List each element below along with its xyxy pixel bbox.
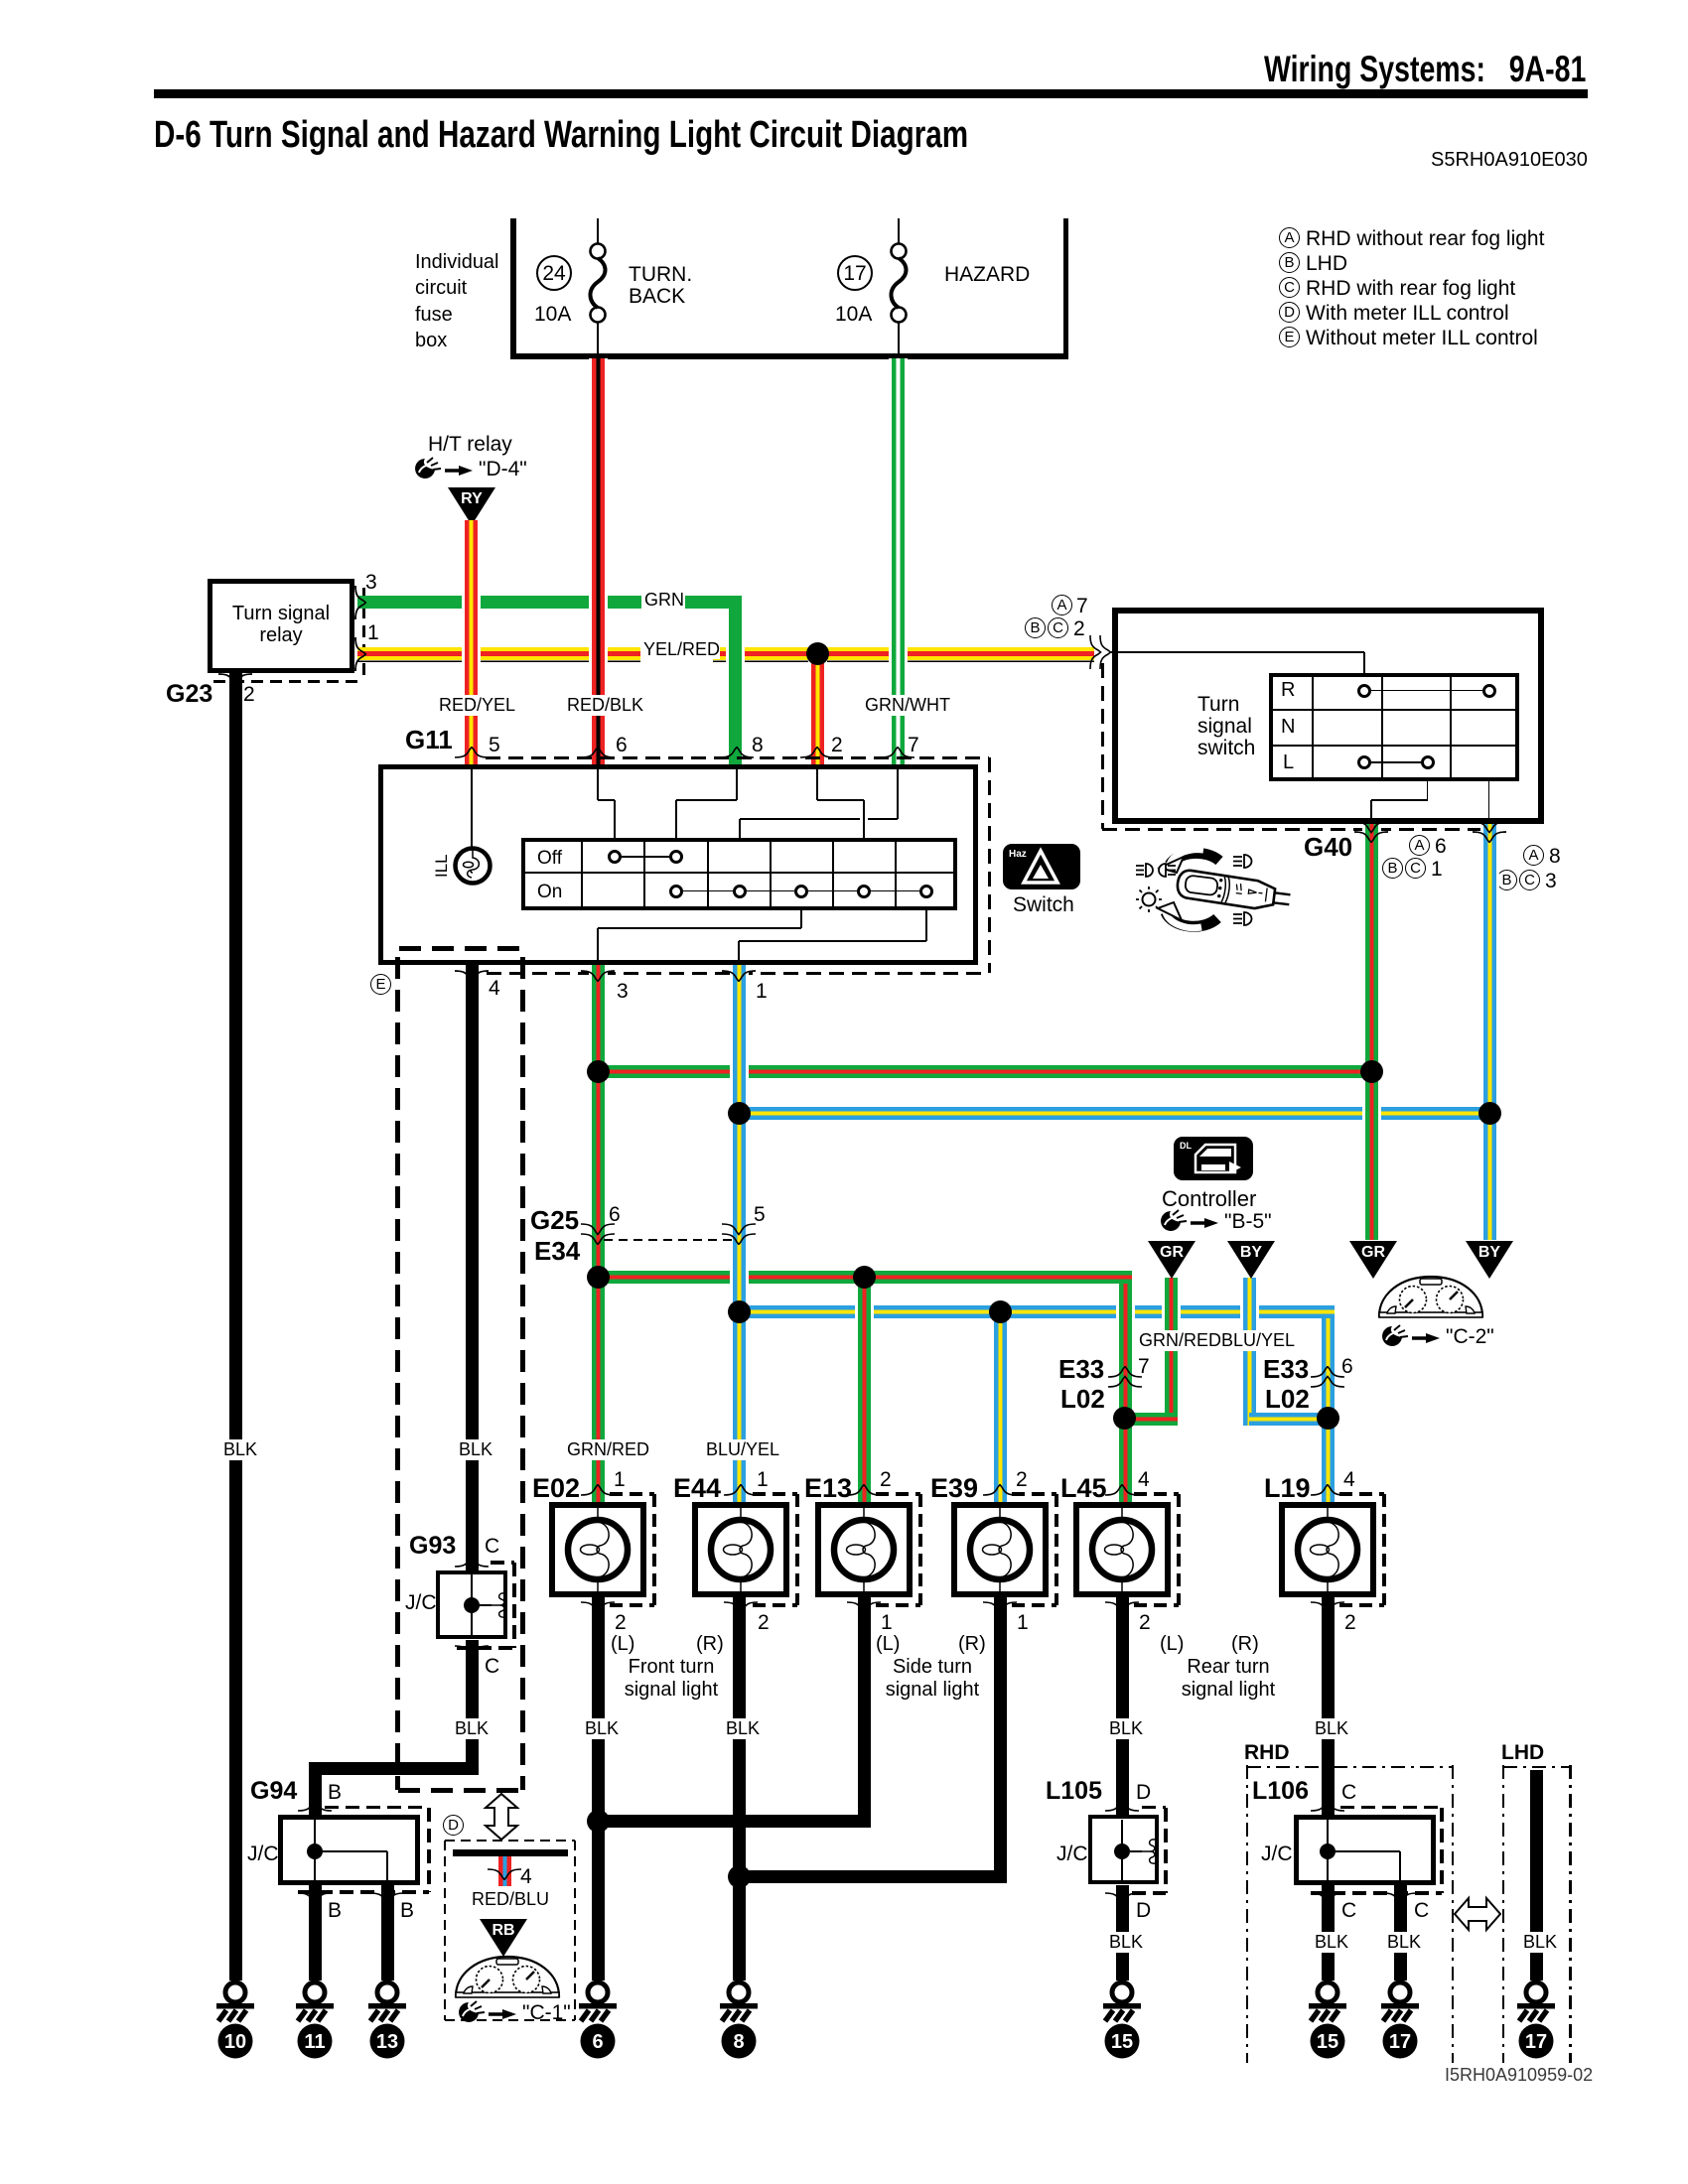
svg-text:RY: RY [461,490,483,507]
svg-text:RB: RB [492,1922,514,1939]
junction connector G93 [409,1533,456,1559]
wire BLK E39 branch [994,1597,1007,1883]
turn signal relay box [208,579,354,673]
lamp group captions [373,1656,969,1678]
svg-text:BY: BY [1240,1244,1263,1261]
wire GRN/RED horizontal lower [592,1271,1132,1284]
figure number [1445,2066,1593,2085]
wire BLU/YEL vertical from G40 [1480,824,1499,1240]
ground 17 [1513,1979,1559,2062]
meter cluster icon C-2 [1374,1274,1487,1320]
wire BLU/YEL controller branch [1240,1278,1259,1426]
wire GRN/WHT vertical from fuse 17 [889,358,908,766]
svg-text:DL: DL [1180,1141,1192,1151]
lamp position labels [611,1634,634,1655]
wire BLU/YEL vertical to L19 [1319,1318,1337,1503]
ILL bulb symbol [452,845,493,887]
connector triangle RB [479,1918,528,1958]
junction connector G94 [250,1778,297,1804]
svg-text:BY: BY [1478,1244,1501,1261]
G11 pin 4 [454,970,490,982]
wire GRN/RED vertical to E02 [589,965,608,1502]
individual circuit fuse box [510,218,516,358]
LHD variant box [1501,1742,1544,1764]
svg-text:8: 8 [733,2031,744,2053]
ground 17 [1377,1979,1423,2062]
switch dashed connector outline [1101,663,1104,829]
wire RED/BLK vertical from fuse 24 [589,358,608,766]
wire BLK G94 to ground 11 [309,1885,322,1980]
On row contacts [669,885,683,898]
wire BLU/YEL vertical to E44 [730,965,749,1502]
wire BLK from G23 to ground 10 [229,673,242,1980]
svg-text:17: 17 [1389,2031,1411,2053]
wire GRN/RED controller branch [1162,1278,1181,1426]
pin break marks overlay [354,585,366,620]
G40 connector label [1304,834,1352,861]
svg-text:11: 11 [304,2031,325,2053]
wire BLK L106 to ground 15 [1322,1885,1335,1980]
wire BLU/YEL horizontal lower [732,1305,1335,1318]
wire BLK E13 branch [858,1597,871,1828]
connector triangle BY [1465,1240,1514,1280]
lamp L45 [1073,1502,1171,1597]
connector triangle BY [1226,1240,1276,1280]
turn signal switch G40 box [1112,608,1544,824]
lamp E39 [951,1502,1049,1597]
ground 15 [1099,1979,1145,2062]
wire RED/YEL vertical from RY relay [462,520,481,766]
svg-text:15: 15 [1317,2031,1338,2053]
G11 pin 8 [719,747,755,758]
svg-text:Haz: Haz [1009,849,1027,860]
svg-text:15: 15 [1111,2031,1133,2053]
ground 15 [1305,1979,1350,2062]
fuse 17 [898,218,900,244]
relay dashed connector outline [362,588,365,681]
wire BLK L105 to ground 15 [1116,1885,1129,1980]
double arrow vertical [482,1793,521,1841]
connector triangle RY [447,486,496,526]
wire BLU/YEL horizontal upper [732,1107,1489,1120]
wire BLK L106 to ground 17 [1394,1885,1407,1980]
hazard switch unit G11 box [378,764,978,965]
wire BLK L19 to L106 [1322,1597,1335,1815]
G40 pin BLU/YEL [1472,821,1507,843]
connector G25 E34 [604,1239,733,1241]
switch contact table [1269,673,1519,781]
junction on YEL/RED wire [806,642,829,665]
wire BLK E44 to ground 8 [733,1597,746,1980]
wire BLU/YEL vertical to E39 [991,1311,1010,1502]
fuse 24 [597,218,599,244]
connector triangle GR [1147,1240,1196,1280]
door lock controller icon [1174,1137,1253,1180]
svg-text:GR: GR [1160,1244,1184,1261]
lamp L19 [1279,1502,1376,1597]
svg-text:13: 13 [376,2031,398,2053]
ground 6 [575,1979,621,2062]
relay pin 1 [354,636,366,672]
wire BLK L45 to L105 [1116,1597,1129,1815]
connector G23 pin 2 [166,681,212,707]
svg-text:6: 6 [592,2031,603,2053]
svg-text:GR: GR [1361,1244,1385,1261]
wire RED/BLU to meter [498,1856,511,1886]
lamp E44 [692,1502,789,1597]
switch output wiring [1427,781,1429,800]
wire GRN/RED horizontal upper [592,1065,1371,1078]
ground 13 [364,1979,410,2062]
lamp E13 [815,1502,913,1597]
connector E33 L02 left [1107,1366,1143,1388]
lamp E02 [549,1502,646,1597]
relay pin 3 [354,585,366,620]
connector triangle GR [1348,1240,1398,1280]
Off row contacts [608,850,622,864]
G11 pin 2 [799,747,835,758]
connector E33 L02 right [1310,1366,1345,1388]
G40 pin GRN/RED [1353,821,1389,843]
G11 pin 7 [880,747,915,758]
ground 8 [716,1979,762,2062]
ground 11 [292,1979,338,2062]
double arrow horizontal [1454,1894,1501,1934]
D variant label [443,1815,464,1836]
H/T relay reference [428,434,512,456]
E variant dashed enclosure [399,946,524,951]
page header [1264,51,1586,89]
G11 interior wiring [471,769,473,848]
legend [1279,227,1300,248]
wire GRN/RED vertical to E13 [855,1277,874,1502]
G11 pin 6 [580,747,616,758]
wire GRN vertical to G11 pin 8 [726,609,745,766]
wire BLK G94 to ground 13 [381,1885,394,1980]
svg-text:17: 17 [1525,2031,1547,2053]
wire YEL/RED horizontal from relay pin 1 [357,647,640,662]
junction connector L105 [1046,1778,1102,1804]
pin labels A7 B C2 [1052,595,1072,615]
RHD variant box [1244,1742,1290,1764]
junction dots mid section [587,1060,610,1083]
connector E variant label [370,974,391,995]
junction connector L106 [1252,1778,1309,1804]
wire BLK E02 to ground 6 [592,1597,605,1980]
ground 10 [212,1979,258,2062]
G11 pin 1 [721,970,757,982]
G11 pin 3 [580,970,616,982]
YEL/RED feed into switch [1089,634,1111,670]
wire BLK LHD to ground 17 [1530,1770,1543,1980]
wire BLK G93 to G94 [466,1640,479,1775]
meter connector bar [453,1849,568,1856]
combination switch lever icon [1134,837,1293,941]
wire GRN horizontal from relay pin 3 [357,596,641,609]
wire GRN/RED vertical from G40 [1362,824,1381,1240]
hazard contact table [521,838,957,910]
D variant dashed box [445,1840,575,1843]
G11 dashed connector outline [486,756,989,759]
wire GRN/RED vertical to L45 [1116,1284,1135,1503]
svg-text:10: 10 [224,2031,246,2053]
wire YEL/RED vertical to G11 pin 2 [808,655,827,766]
meter cluster icon C-1 [452,1954,563,2000]
hazard switch icon [1002,843,1081,890]
wire BLK G11 pin4 to G93 [466,965,479,1570]
G11 pin 5 [454,747,490,758]
